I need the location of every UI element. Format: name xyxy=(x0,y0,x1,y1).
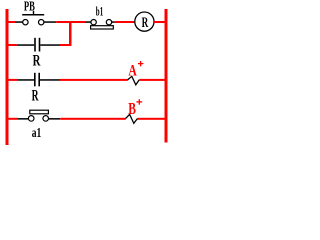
solenoid A+ zigzag xyxy=(128,76,140,85)
wire rung3 red to right rail xyxy=(139,79,164,81)
wire rung1 red mid segment xyxy=(56,21,85,23)
svg-text:A: A xyxy=(128,62,137,79)
svg-text:R: R xyxy=(142,15,149,31)
right power rail xyxy=(165,9,168,143)
wire rung2 red to riser xyxy=(60,44,72,46)
svg-text:b1: b1 xyxy=(96,4,103,18)
wire rung4 red stub from left rail xyxy=(9,118,18,120)
wire rung2 black after contact xyxy=(40,44,60,46)
wire rung3 red to solenoid A xyxy=(60,79,128,81)
svg-text:B: B xyxy=(128,99,136,118)
relay coil R xyxy=(135,12,154,31)
pushbutton PB xyxy=(22,11,44,25)
svg-text:R: R xyxy=(32,86,39,105)
contact R rung3 (NO) xyxy=(34,73,40,87)
svg-text:R: R xyxy=(33,53,41,70)
wire rung1 red to coil xyxy=(115,21,135,23)
wire rung1 red stub from left rail xyxy=(9,21,16,23)
svg-text:PB: PB xyxy=(24,0,35,14)
wire red riser junction to rung2 xyxy=(69,21,72,46)
contact R (seal-in, NO) xyxy=(34,38,40,52)
wire rung1 black after b1 xyxy=(112,21,115,23)
wire rung4 red to right rail xyxy=(138,118,165,120)
wire rung2 black to contact R xyxy=(17,44,34,46)
wire rung4 red to solenoid B xyxy=(60,118,126,120)
contact b1 (NC limit switch) xyxy=(91,20,114,30)
contact a1 (NO limit switch) xyxy=(28,110,48,121)
wire rung3 black to contact R xyxy=(17,79,34,81)
left power rail xyxy=(6,9,9,145)
wire rung4 black after a1 xyxy=(49,118,61,120)
wire rung1 black after PB xyxy=(44,21,56,23)
wire rung4 black to a1 xyxy=(18,118,29,120)
wire rung2 red stub from left rail xyxy=(9,44,17,46)
wire rung3 black after contact xyxy=(40,79,60,81)
wire rung3 red stub from left rail xyxy=(9,79,18,81)
solenoid B+ zigzag xyxy=(126,114,138,123)
wire rung1 black to b1 xyxy=(85,21,91,23)
label B plus sign xyxy=(136,99,142,105)
svg-text:a1: a1 xyxy=(32,125,42,140)
wire rung1 red coil to right rail xyxy=(154,21,165,23)
label A plus sign xyxy=(138,61,143,66)
wire rung1 black to PB xyxy=(15,21,23,23)
